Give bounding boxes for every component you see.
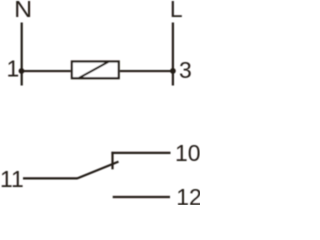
svg-text:L: L [170, 0, 183, 22]
wire: common terminal 11 horizontal [23, 177, 78, 179]
coil K1: rectangle with diagonal stroke [72, 62, 119, 79]
fixed contact tick of terminal 10 [111, 152, 113, 170]
svg-text:3: 3 [179, 57, 192, 83]
wire: right vertical from L down to node 3 [172, 23, 174, 86]
wire: left vertical from N down to node 1 [21, 23, 23, 86]
svg-text:N: N [14, 0, 32, 22]
switch arm (moving contact from 11 toward 10) [77, 162, 118, 179]
wire: terminal 12 horizontal [113, 196, 170, 198]
wire: horizontal from node 1 to coil [21, 70, 71, 72]
svg-text:1: 1 [7, 55, 20, 81]
svg-text:10: 10 [175, 140, 200, 166]
svg-text:11: 11 [0, 166, 24, 192]
junction node 1 (dot) [19, 68, 25, 74]
wire: terminal 10 horizontal [111, 152, 170, 154]
svg-text:12: 12 [176, 184, 200, 205]
junction node 3 (dot) [170, 68, 176, 74]
wire: horizontal from coil to node 3 [120, 70, 174, 72]
